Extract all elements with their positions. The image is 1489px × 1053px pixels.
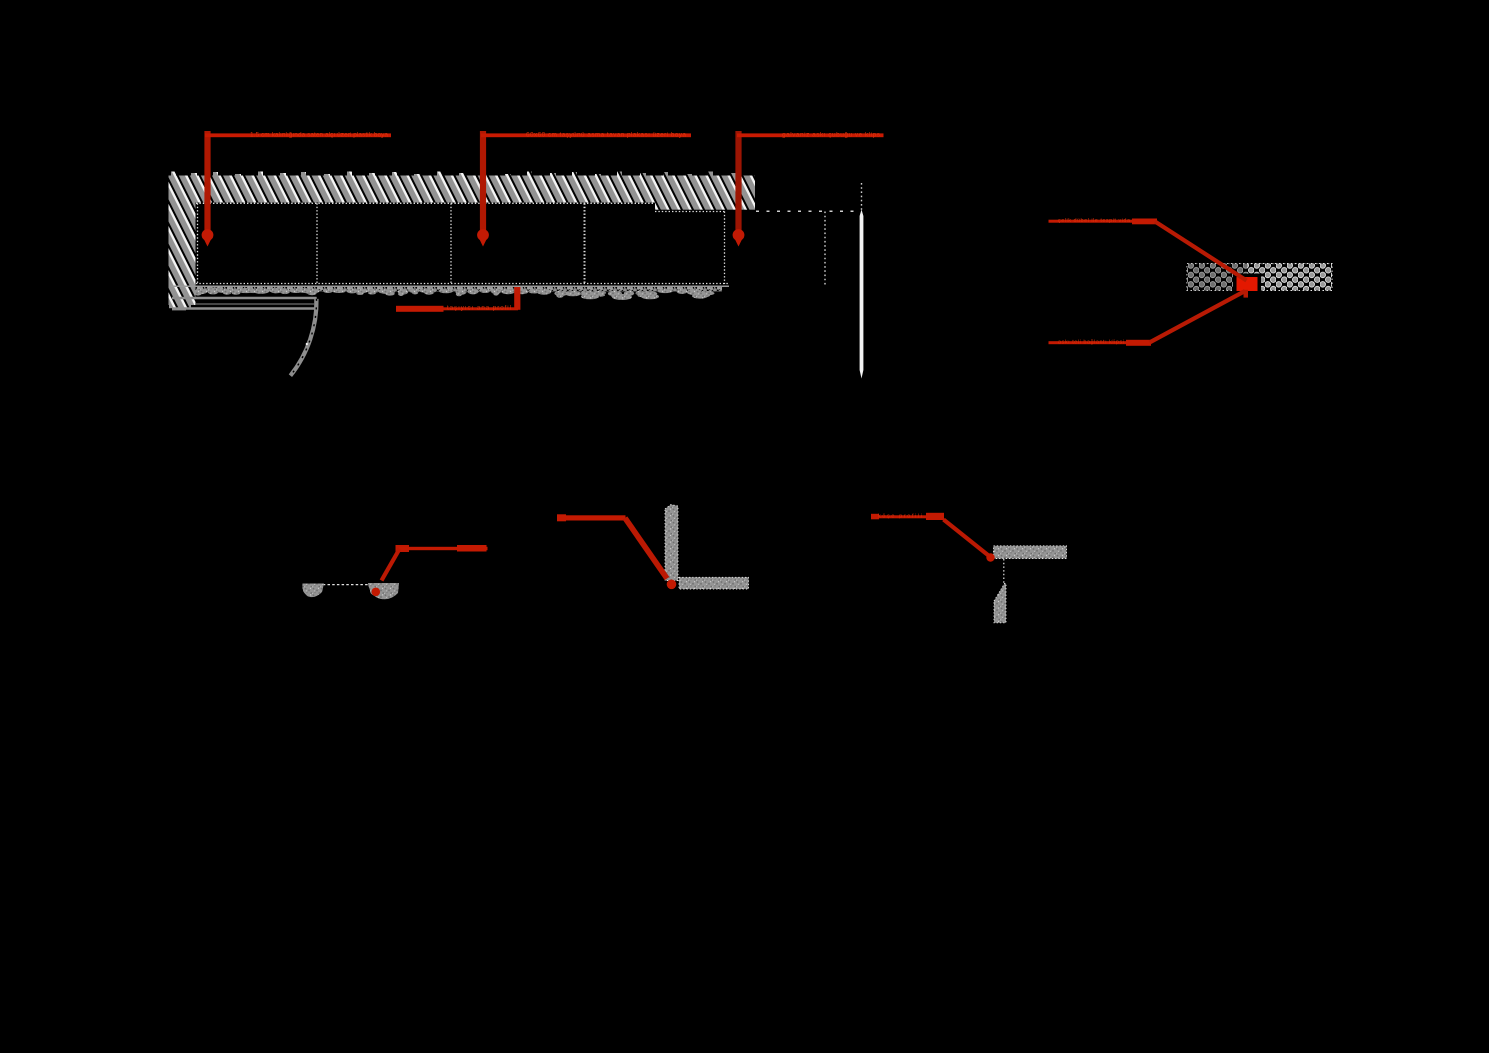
stipple strip hanging clusters <box>195 287 715 300</box>
leader 3 vertical <box>735 131 741 230</box>
wall hatch: left band ragged foot <box>169 305 191 308</box>
detail2 top leader <box>1049 220 1138 223</box>
white sliver (wall edge in section) <box>860 210 864 379</box>
svg-text:galvaniz askı çubuğu ve klips: galvaniz askı çubuğu ve klips <box>782 131 881 138</box>
svg-text:köşe profili: köşe profili <box>878 514 922 520</box>
svg-text:taşıyıcı ana profil: taşıyıcı ana profil <box>447 304 511 311</box>
ceiling void outline (dotted) top edge <box>196 203 728 284</box>
leader 2 horizontal <box>481 133 691 137</box>
leader 1 vertical <box>204 131 210 230</box>
svg-text:askı teli bağlantı klipsi: askı teli bağlantı klipsi <box>1058 339 1124 345</box>
leader 3 horizontal <box>737 133 884 137</box>
right edge <box>724 212 726 285</box>
detail2 stipple band <box>1187 264 1332 291</box>
door swing arc <box>290 299 316 376</box>
d3 leader <box>396 545 410 552</box>
dashed ceiling line right of hatch <box>756 210 857 212</box>
wall hatch: ragged top edge <box>171 172 737 178</box>
stepped top edge right part <box>655 211 726 213</box>
detail2 bottom leader <box>1049 341 1129 344</box>
leader 2 vertical <box>480 131 486 230</box>
leader 2 arrow <box>477 229 489 241</box>
d5 dotted connector <box>1003 559 1005 584</box>
left edge <box>197 203 199 284</box>
leader 1 arrow <box>202 229 214 241</box>
d4 sill horizontal <box>679 577 749 589</box>
d5 jamb vertical <box>994 584 1006 623</box>
leader 4 vertical <box>514 287 520 310</box>
svg-text:çelik dübel ile tespit vida: çelik dübel ile tespit vida <box>1058 218 1131 224</box>
leader 3 arrow <box>733 229 745 241</box>
leader 4 thin segment <box>444 307 519 310</box>
d4 leader <box>557 515 626 520</box>
dotted vertical above white sliver <box>861 183 863 210</box>
panel divider 3 <box>584 203 586 283</box>
leader 4 thick segment <box>396 306 444 312</box>
detail2 fastener black surround <box>1233 274 1261 293</box>
wall hatch: left band <box>169 176 196 306</box>
d5 leader <box>871 514 879 520</box>
stipple strip under slab <box>196 287 722 292</box>
bottom edge <box>196 283 728 285</box>
wall hatch: top band <box>169 176 755 210</box>
d3 dashed joint line <box>304 584 397 586</box>
dotted vertical x825 <box>824 212 826 285</box>
d3 stipple left <box>302 584 324 598</box>
d5 lintel horizontal <box>994 546 1067 559</box>
door threshold <box>172 297 317 310</box>
svg-text:1.5 cm kalınlığında saten alçı: 1.5 cm kalınlığında saten alçı üzeri pla… <box>250 131 388 138</box>
d3 stipple right <box>368 583 399 599</box>
panel divider 2 <box>450 203 452 283</box>
panel divider 1 <box>316 203 318 283</box>
d4 stud vertical <box>665 505 678 581</box>
svg-text:60x60 cm taşyünü asma tavan pl: 60x60 cm taşyünü asma tavan plakası üzer… <box>526 131 686 138</box>
detail2 fastener (red clip) <box>1237 277 1258 291</box>
floor line under slab <box>171 285 729 287</box>
leader 1 horizontal <box>205 133 391 137</box>
